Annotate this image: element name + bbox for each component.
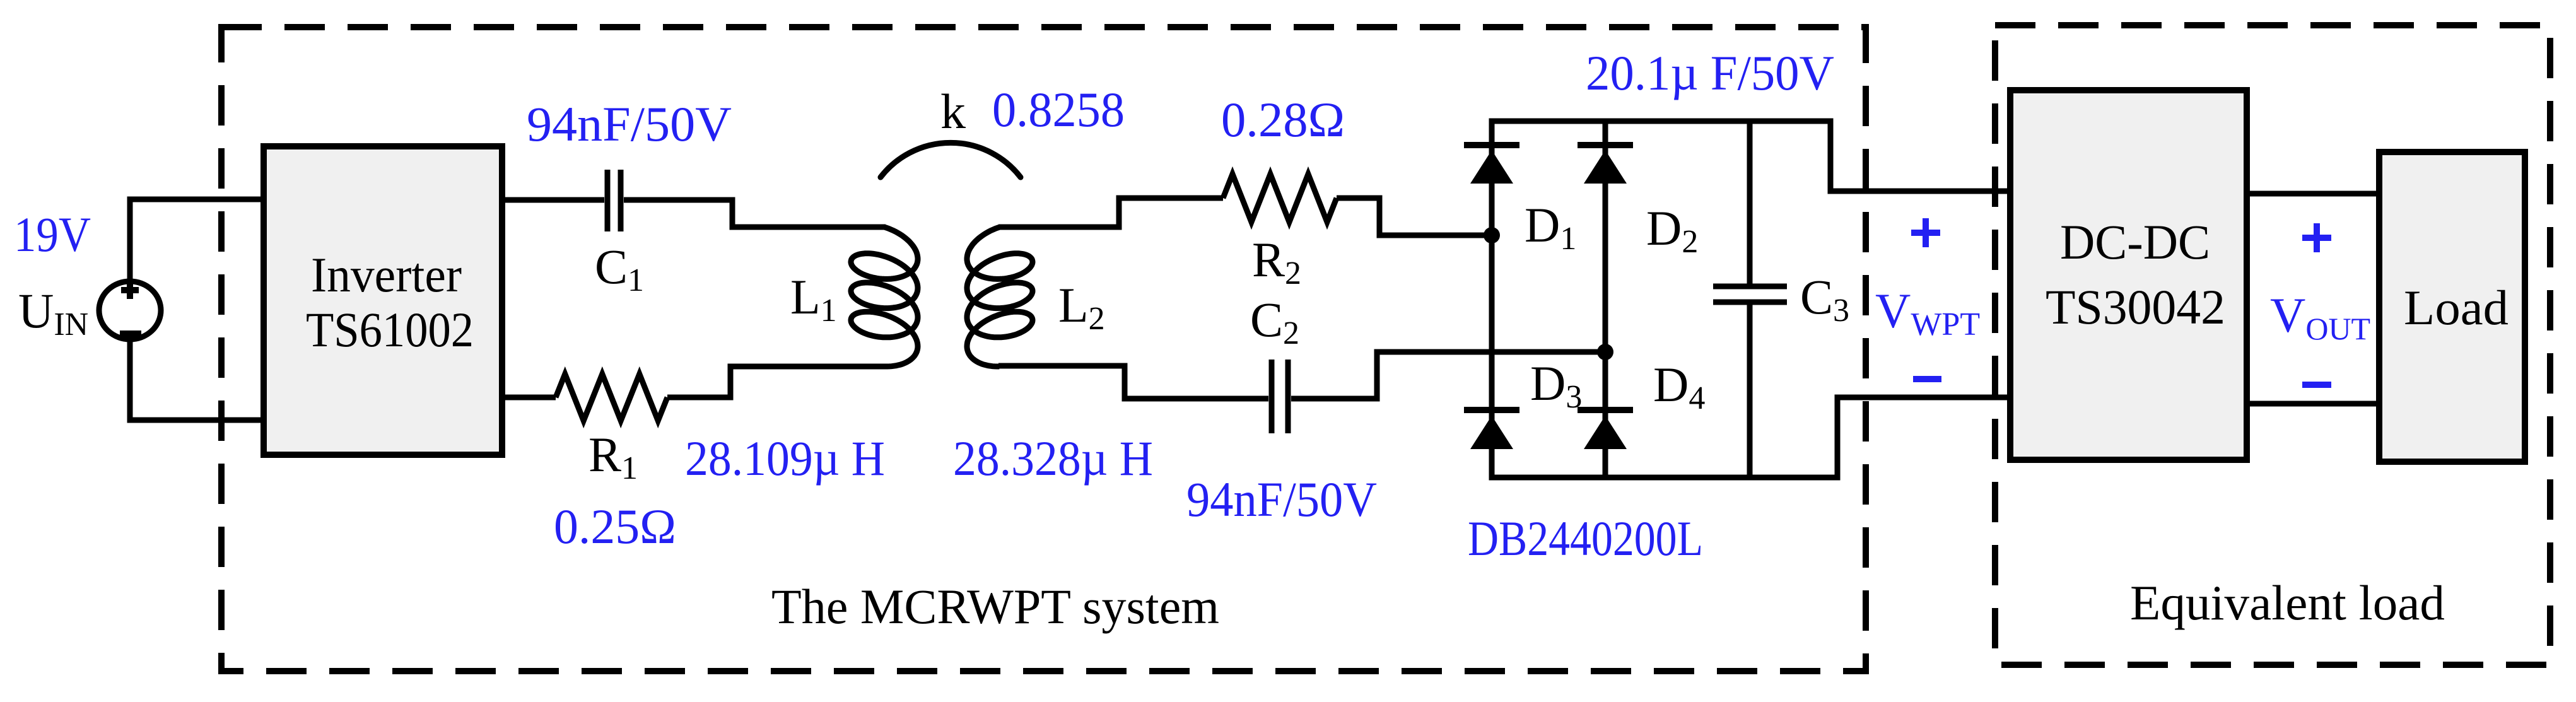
- diode D4: [1578, 407, 1633, 413]
- svg-text:Load: Load: [2404, 280, 2509, 335]
- wire: C1 to L1 top: [624, 200, 886, 227]
- capacitor C2 plates: [1272, 360, 1288, 433]
- inductor L1 coil: [851, 227, 918, 366]
- minus sign inside source: [120, 331, 141, 337]
- junction node on right branch: [1597, 344, 1613, 360]
- capacitor C3 stem bottom: [1747, 305, 1753, 477]
- svg-text:94nF/50V: 94nF/50V: [1186, 472, 1377, 527]
- wire: L2 bottom to C2: [998, 366, 1268, 399]
- svg-text:TS61002: TS61002: [306, 302, 474, 357]
- bridge outline: top rail, left branch, bottom rail, output exits: [1492, 121, 2010, 477]
- capacitor C1 plates: [607, 170, 621, 231]
- minus sign VOUT: [2302, 382, 2331, 388]
- diode D3: [1464, 407, 1519, 413]
- minus sign VWPT: [1913, 376, 1941, 382]
- wire: inverter to R1: [502, 395, 556, 401]
- DC-DC converter box TS30042: [2010, 90, 2247, 460]
- svg-text:19V: 19V: [14, 207, 91, 262]
- wire: DC-DC to load bottom: [2247, 401, 2379, 407]
- dashed box: The MCRWPT system boundary: [221, 27, 1866, 671]
- svg-text:28.109µ H: 28.109µ H: [685, 431, 885, 486]
- svg-text:0.25Ω: 0.25Ω: [554, 499, 676, 554]
- svg-text:DC-DC: DC-DC: [2060, 214, 2210, 269]
- wire: C2 to bridge node: [1291, 352, 1605, 399]
- wire: R1 to L1 bottom: [667, 366, 886, 397]
- inductor L2 coil: [967, 227, 1033, 366]
- wire: source top to inverter: [130, 199, 266, 282]
- svg-text:0.28Ω: 0.28Ω: [1221, 92, 1345, 147]
- plus sign VWPT: [1911, 218, 1940, 247]
- diode D2: [1578, 142, 1633, 148]
- dashed box: Equivalent load boundary: [1995, 25, 2550, 665]
- svg-text:DB2440200L: DB2440200L: [1468, 511, 1703, 566]
- wire: L2 top to R2: [998, 198, 1223, 227]
- resistor R1: [556, 374, 667, 421]
- plus sign inside source: [121, 281, 139, 299]
- svg-text:20.1µ F/50V: 20.1µ F/50V: [1586, 45, 1834, 100]
- svg-text:k: k: [940, 84, 966, 139]
- svg-text:0.8258: 0.8258: [992, 82, 1125, 137]
- junction node on left branch: [1484, 227, 1500, 243]
- svg-text:The MCRWPT system: The MCRWPT system: [771, 579, 1219, 634]
- voltage source UIN circle: [99, 281, 161, 339]
- bridge right branch wire: [1603, 121, 1608, 477]
- wire: R2 to bridge node: [1337, 198, 1492, 235]
- resistor R2: [1223, 174, 1337, 222]
- svg-text:94nF/50V: 94nF/50V: [527, 97, 732, 151]
- wire: inverter to C1: [502, 197, 604, 203]
- coupling arc k: [881, 143, 1021, 177]
- plus sign VOUT: [2302, 223, 2331, 252]
- capacitor C3 stem top: [1747, 121, 1753, 284]
- diode D1: [1464, 142, 1519, 148]
- inverter box TS61002: [264, 146, 502, 455]
- wire: source bottom to inverter: [130, 339, 266, 420]
- svg-text:Equivalent load: Equivalent load: [2130, 575, 2445, 630]
- capacitor C3 plates: [1713, 286, 1787, 302]
- wire: DC-DC to load top: [2247, 191, 2379, 197]
- svg-text:TS30042: TS30042: [2046, 279, 2225, 334]
- load box: [2379, 152, 2525, 462]
- svg-text:Inverter: Inverter: [311, 247, 462, 302]
- svg-text:28.328µ H: 28.328µ H: [953, 431, 1153, 486]
